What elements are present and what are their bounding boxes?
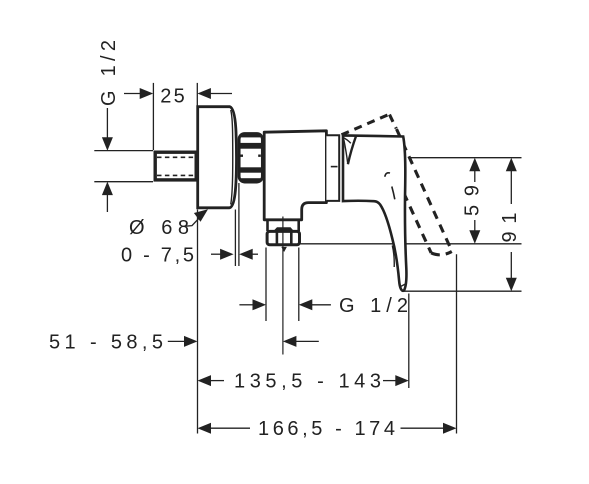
outlet hose nut (267, 229, 299, 252)
handle inner detail hook (385, 173, 390, 177)
arrow O68 leader (194, 209, 208, 222)
arrow 0-7,5 left (220, 249, 234, 260)
extension line nipple end (25 dim left) (152, 83, 154, 150)
escutcheon inner face line (231, 110, 233, 205)
extension line dashed-lever tip (166,5-174 right) (456, 254, 458, 433)
dim line 25 left tail (124, 93, 141, 95)
dim line G1/2 bottom right tail (312, 304, 331, 306)
dashed lever top edge (342, 114, 390, 135)
knurl chamfer nib right (258, 155, 261, 157)
valve body (264, 131, 326, 220)
knurl chamfer nib left (240, 155, 243, 157)
dashed lever back edge (385, 152, 431, 253)
svg-text:0 - 7,5: 0 - 7,5 (121, 245, 194, 267)
extension line escutcheon face (0-7,5 left) (234, 210, 236, 267)
arrow 59 bottom (469, 230, 480, 244)
dashed lever tip (431, 252, 452, 255)
nipple thread dashes (157, 156, 196, 158)
arrow 25 left (140, 88, 154, 99)
svg-text:135,5 - 143: 135,5 - 143 (234, 371, 381, 393)
arrow 135,5-143 right (395, 375, 409, 386)
svg-text:G 1/2: G 1/2 (98, 40, 120, 106)
outlet centerline (282, 217, 284, 355)
extension line outlet nut right (G1/2 bottom dim) (298, 248, 300, 322)
arrow 135,5-143 left (198, 375, 212, 386)
dim line 135,5-143 left tail (211, 380, 225, 382)
handle inner detail lower (392, 246, 394, 268)
knurl stripe bottom inner (240, 178, 261, 181)
dim line 166,5-174 right tail (401, 427, 444, 429)
dim line 51-58,5 left tail (168, 340, 185, 342)
lever wedge line (348, 136, 356, 165)
arrow 51-58,5 left-pointing at centerline (283, 336, 297, 347)
ring tick (331, 166, 338, 168)
dashed lever raised position (342, 114, 452, 255)
arrow 91 bottom (506, 278, 517, 292)
lever tip notch (401, 283, 407, 286)
arrow G1/2-bottom right (299, 299, 313, 310)
dashed lever end cap top (390, 115, 397, 129)
extension line nipple bottom (G1/2 left dim) (94, 181, 153, 183)
arrow 0-7,5 right (239, 249, 253, 260)
arrow 166,5-174 right (443, 423, 457, 434)
knurl stripe upper (240, 143, 262, 149)
hose nut hex flat left (276, 231, 279, 245)
hose nut hex flat right (290, 231, 293, 245)
leader line O68 (184, 214, 204, 227)
dim line 0-7,5 right tail (252, 253, 258, 255)
extension line nipple top (G1/2 left dim) (94, 150, 153, 152)
handle inner detail stroke (392, 187, 395, 200)
extension line lever tip level (91 bottom) (402, 290, 522, 292)
svg-text:166,5 - 174: 166,5 - 174 (258, 418, 395, 440)
extension line wall plane lower (197, 210, 199, 434)
dashed lever front edge (397, 129, 452, 251)
dim line 135,5-143 right tail (383, 380, 396, 382)
escutcheon (wall flange, O68) (198, 107, 237, 208)
extension line handle top level (59/91 top) (410, 157, 522, 159)
G1/2 left dim shaft upper (106, 108, 108, 139)
svg-text:G 1/2: G 1/2 (339, 295, 408, 317)
arrow 25 right (197, 88, 211, 99)
dim line 51-58,5 right tail (296, 340, 319, 342)
arrow G1/2-left up (102, 182, 113, 196)
knurl stripe top inner (240, 135, 261, 138)
dim line 25 right tail (209, 93, 232, 95)
extension line outlet level (59 bottom) (299, 243, 522, 245)
arrow 59 top (469, 158, 480, 172)
knurled union nut (239, 134, 262, 182)
handle body (343, 135, 407, 290)
dim line 91 shafts (510, 168, 512, 204)
extension line wall plane upper (25 dim right) (196, 83, 198, 106)
knurl stripe lower (240, 167, 262, 172)
outlet tip pointer (281, 247, 287, 252)
arrow 91 top (506, 158, 517, 172)
arrowheads (102, 88, 517, 434)
outlet stub (268, 220, 299, 231)
G1/2 left dim shaft lower (106, 194, 108, 213)
extension line nut face (0-7,5 right) (238, 183, 240, 266)
threaded nipple G1/2 (155, 152, 196, 180)
extension line handle tip (135,5-143 right) (408, 294, 410, 389)
arrow 51-58,5 right-pointing (184, 336, 198, 347)
arrow 166,5-174 left (198, 423, 212, 434)
hose nut chamfer cap (275, 229, 292, 231)
dim line 166,5-174 left tail (211, 427, 251, 429)
arrow G1/2-left down (102, 137, 113, 151)
svg-text:51 - 58,5: 51 - 58,5 (49, 331, 163, 353)
pivot arc (343, 138, 351, 144)
dim line 59 shafts (474, 168, 476, 182)
hose nut body (267, 231, 299, 244)
dim line G1/2 bottom left tail (239, 304, 253, 306)
arrow G1/2-bottom left (253, 299, 267, 310)
cartridge ring (326, 135, 339, 201)
dim line 0-7,5 left tail (211, 253, 221, 255)
extension line outlet nut left (G1/2 bottom dim) (265, 248, 267, 322)
